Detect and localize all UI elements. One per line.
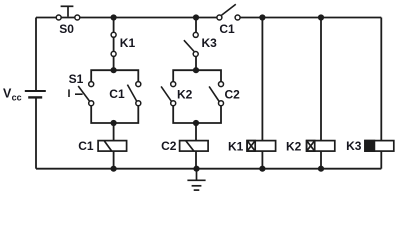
svg-text:C1: C1 [109, 87, 125, 101]
svg-text:K3: K3 [202, 36, 218, 50]
wire rung2 bottom rail [173, 103, 221, 123]
svg-text:C1: C1 [219, 22, 235, 36]
contact C1 (NO, rung 1) [127, 82, 140, 106]
wire left vertical above battery [35, 18, 37, 92]
label Vcc [3, 86, 22, 102]
coil C1 [98, 141, 127, 152]
wire rung1 top rail [91, 70, 138, 84]
node dot rung1 bottom [111, 120, 117, 126]
svg-text:C2: C2 [225, 87, 241, 101]
coil K2 (with X square) [307, 141, 335, 152]
wire top rail left segment (through S0 bridge) [36, 17, 219, 19]
svg-text:K1: K1 [228, 139, 244, 153]
pushbutton S0 [56, 6, 80, 20]
wire K2 coil vertical lower [320, 151, 322, 169]
svg-text:C1: C1 [78, 139, 94, 153]
node dot bottom rail K2 [318, 166, 324, 172]
battery Vcc [25, 91, 46, 97]
wire K2 coil vertical upper [320, 18, 322, 141]
node dot rung1 top [111, 67, 117, 73]
node dot bottom rail K1 [259, 166, 265, 172]
contact C1 (NO, top rail) [217, 4, 240, 20]
wire rung1 bottom rail [91, 103, 138, 123]
contact K1 (closed) [111, 32, 116, 56]
svg-text:C2: C2 [161, 139, 177, 153]
svg-text:S0: S0 [59, 22, 74, 36]
wire coil C2 to ground node [195, 151, 197, 169]
svg-text:K2: K2 [177, 87, 193, 101]
wire K1 coil vertical upper [261, 18, 263, 141]
contact K3 (NO) [184, 32, 198, 56]
wire rung1 node to coil C1 [113, 123, 115, 141]
wire left vertical below battery [35, 97, 37, 168]
wire coil C1 to bottom rail [113, 151, 115, 169]
wire K3 rung upper stub [195, 18, 197, 35]
svg-text:S1: S1 [69, 72, 84, 86]
node dot rung2 bottom [193, 120, 199, 126]
wire K1 coil vertical lower [261, 151, 263, 169]
svg-text:K1: K1 [120, 36, 136, 50]
coil C2 [180, 141, 209, 152]
svg-text:cc: cc [12, 92, 22, 102]
node dot top rail K1-coil [259, 14, 265, 20]
contact K2 (NO, rung 2) [161, 82, 176, 106]
wire K3 rung lower stub [195, 54, 197, 70]
coil K3 (filled square) [365, 141, 394, 152]
node dot top rail K2-coil [318, 14, 324, 20]
node dot rung2 top [193, 67, 199, 73]
svg-text:K3: K3 [346, 139, 362, 153]
wire bottom rail [36, 168, 381, 170]
wire K3 coil to bottom rail [380, 151, 382, 169]
wire rung2 top rail [173, 70, 221, 84]
node dot bottom rail C1 [111, 166, 117, 172]
contact C2 (NO, rung 2) [209, 82, 223, 106]
wire K1 rung vertical (closed contact straight through) [113, 18, 115, 71]
node dot bottom rail ground [193, 166, 199, 172]
node dot top rail K1 [111, 14, 117, 20]
wire top rail right segment [238, 17, 382, 19]
coil K1 (with X square) [247, 141, 276, 152]
svg-text:K2: K2 [286, 140, 302, 154]
switch S1 (manual, NO) [69, 82, 94, 106]
wire right rail down to K3 coil [380, 18, 382, 141]
wire rung2 node to coil C2 [195, 123, 197, 141]
ground [187, 169, 205, 190]
node dot top rail K3 [193, 14, 199, 20]
